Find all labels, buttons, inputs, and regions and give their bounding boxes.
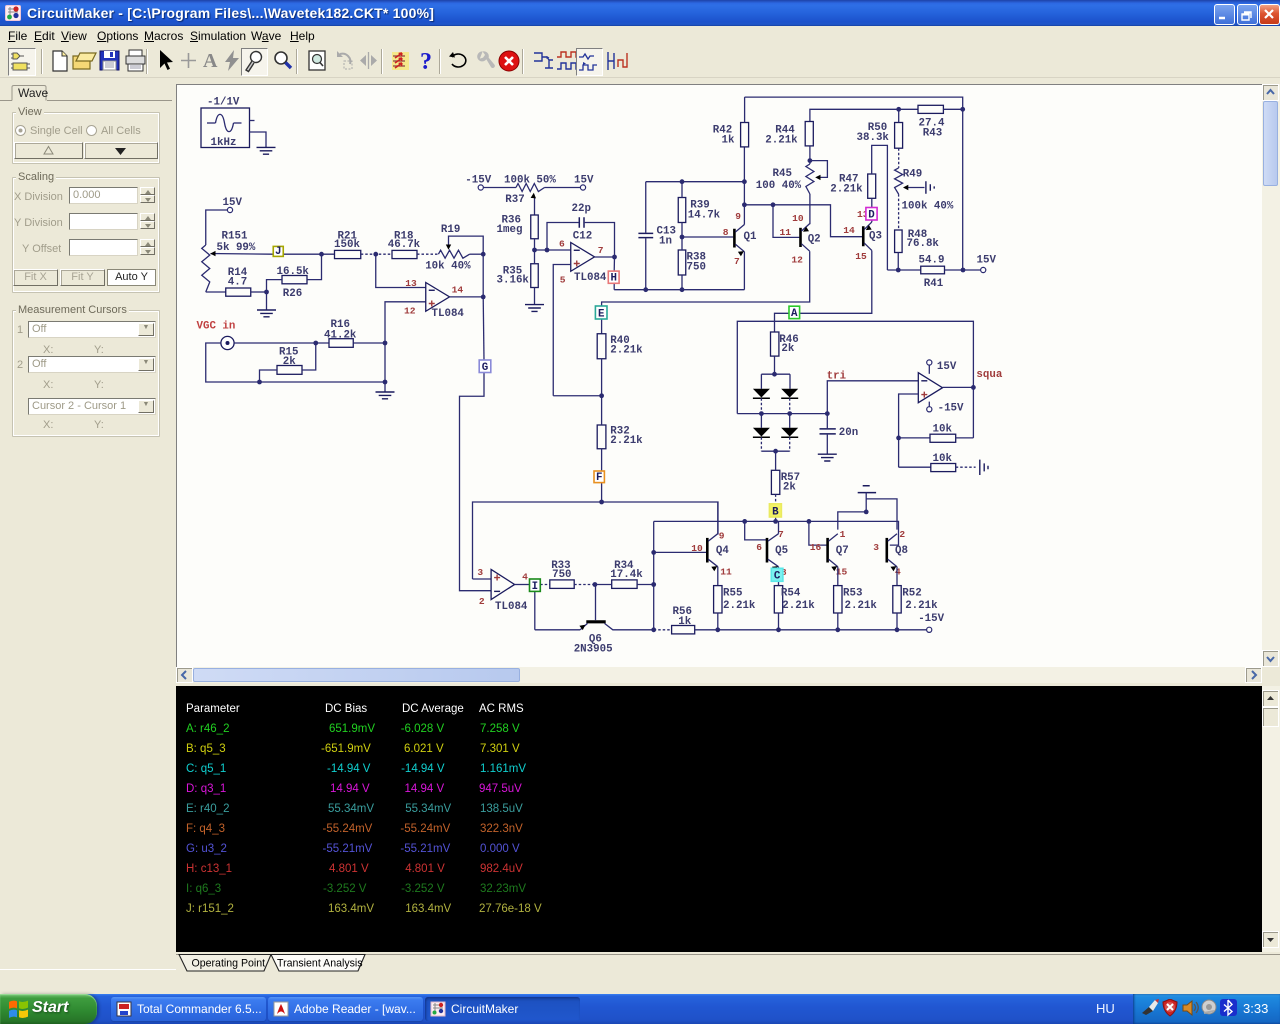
svg-text:2N3905: 2N3905 (574, 644, 613, 656)
wire R16 right (353, 342, 385, 344)
svg-text:Operating Point: Operating Point (192, 958, 266, 970)
wire U3C output (515, 584, 530, 586)
wire Q1 emitter down (743, 252, 745, 290)
wire R52 bottom (896, 613, 898, 630)
arrow (152, 48, 178, 74)
svg-text:4: 4 (895, 566, 901, 577)
junction dot Q4 base branch (651, 550, 656, 555)
zoom (270, 48, 296, 74)
resistor 10k ground (931, 453, 956, 472)
panel bottom edge (0, 967, 176, 970)
resistor R44 2.21k (765, 122, 813, 147)
svg-text:3: 3 (873, 542, 879, 553)
wire V1 minus to ground (250, 132, 267, 147)
wire -15V to R37 (483, 187, 516, 189)
junction dot R36-R35 (532, 248, 537, 253)
wave btn 2 (554, 48, 580, 74)
svg-text:11: 11 (720, 566, 732, 577)
junction dot R52 rail (895, 627, 900, 632)
wire U3B output (595, 256, 615, 258)
svg-text:R151: R151 (222, 230, 248, 242)
svg-text:76.8k: 76.8k (907, 238, 940, 250)
wire D2 to mid rail (789, 398, 791, 413)
svg-text:1k: 1k (722, 134, 735, 146)
wave btn 4 (604, 48, 630, 74)
svg-text:VGC in: VGC in (197, 320, 236, 332)
svg-text:7: 7 (598, 245, 604, 256)
connector VGC (221, 336, 234, 349)
svg-text:6: 6 (559, 238, 565, 249)
resistor R15 2k (277, 347, 302, 375)
bluetooth (1220, 999, 1237, 1016)
junction dot R15 right riser (313, 341, 318, 346)
wire D4 bottom (789, 437, 791, 451)
terminal 15V R37 (574, 175, 594, 190)
svg-text:?: ? (420, 49, 432, 74)
transistor Q6 2N3905 (535, 585, 654, 656)
wire right rail down (962, 109, 964, 270)
transistor Q4 (691, 530, 732, 577)
terminal 15V right (977, 254, 997, 272)
wire inverting input U3A (376, 254, 426, 287)
svg-text:A: A (791, 308, 798, 320)
node C (771, 568, 783, 582)
wire R40 bottom (601, 359, 603, 396)
wire node G to U3C (460, 297, 492, 591)
svg-text:2.21k: 2.21k (723, 600, 756, 612)
wire bottom rail (695, 629, 927, 631)
wire R14 to junction (251, 291, 267, 293)
resistor R18 46.7k (388, 231, 421, 259)
junction dot Q6 base (593, 582, 598, 587)
svg-text:Q1: Q1 (744, 231, 757, 243)
wire non-inverting input U3A (385, 302, 426, 343)
svg-text:10k: 10k (933, 453, 953, 465)
wire Q4 emitter (717, 567, 719, 586)
svg-text:10k 40%: 10k 40% (425, 261, 471, 273)
svg-text:Q3: Q3 (869, 230, 882, 242)
svg-text:2k: 2k (283, 356, 296, 368)
svg-text:2.21k: 2.21k (765, 134, 798, 146)
resistor R40 2.21k (597, 334, 643, 359)
svg-text:Q7: Q7 (836, 545, 849, 557)
junction dot Q7-Q8 collectors (864, 510, 869, 515)
wire Q8 emitter (896, 567, 898, 586)
op-amp U3C TL084 (477, 567, 528, 613)
node G (479, 360, 491, 374)
svg-text:1k: 1k (678, 616, 691, 628)
transistor Q1 (734, 211, 757, 267)
wire R53 bottom (837, 613, 839, 630)
wire R26 right to J wire (307, 254, 322, 279)
Wave tab (0, 84, 173, 102)
diode D1 (753, 374, 770, 398)
wire R47 top loop (872, 145, 888, 270)
svg-text:2.21k: 2.21k (610, 435, 643, 447)
svg-text:R55: R55 (723, 588, 742, 600)
wire U3A output (450, 296, 484, 298)
potentiometer R45 100 40% (756, 161, 828, 194)
svg-text:1meg: 1meg (497, 224, 523, 236)
wire Q7 collector (838, 512, 866, 530)
wire Q1-Q2 collector link (744, 205, 862, 237)
svg-text:F: F (596, 472, 602, 484)
node B (769, 504, 781, 519)
resistor R42 1k (713, 123, 749, 147)
ground below 20n (818, 454, 837, 461)
wire F rail (473, 502, 719, 579)
wire R43 right (943, 108, 962, 110)
op-amp U3A TL084 (404, 278, 464, 320)
svg-text:100 40%: 100 40% (756, 180, 802, 192)
junction dot bottom-left (257, 380, 262, 385)
wire to U3B minus (535, 249, 571, 251)
potentiometer R19 10k 40% (425, 224, 471, 272)
svg-text:9: 9 (719, 530, 725, 541)
node I (530, 579, 541, 593)
wire VGC bottom rail (206, 343, 385, 382)
junction dot Q1 base node (680, 235, 685, 240)
junction dot mid-tri (825, 411, 830, 416)
wave btn 1 (531, 48, 557, 74)
wave btn 3 (sunken) (576, 48, 603, 76)
pin label 8 Q1 base (723, 227, 729, 238)
svg-text:R37: R37 (505, 194, 524, 206)
capacitor C13 1n (638, 182, 676, 290)
junction dot C12 branch (545, 248, 550, 253)
svg-text:-15V: -15V (938, 403, 964, 415)
potentiometer R37 100k 50% (504, 175, 556, 215)
svg-text:Q2: Q2 (808, 233, 821, 245)
svg-text:16.5k: 16.5k (277, 266, 310, 278)
wire diode top rail (761, 373, 790, 375)
pin stub V1 plus (250, 120, 255, 122)
svg-text:TL084: TL084 (574, 272, 607, 284)
wire Q4 collector (717, 502, 719, 534)
resistor R38 750 (678, 250, 706, 275)
svg-text:I: I (532, 581, 538, 593)
junction dot diodes top (772, 372, 777, 377)
svg-text:14.7k: 14.7k (688, 209, 721, 221)
svg-text:5: 5 (560, 275, 566, 286)
svg-text:38.3k: 38.3k (857, 132, 890, 144)
resistor R21 150k (334, 231, 361, 259)
wire R48 bottom (897, 253, 899, 271)
wire R19 right (470, 253, 484, 255)
resistor R41 54.9 (919, 254, 945, 290)
wire Q4 base (654, 551, 707, 553)
wire C13 top line (646, 181, 745, 183)
wire node E riser (601, 319, 603, 334)
junction dot R21 left (319, 252, 324, 257)
op-amp U5 comparator (918, 373, 942, 403)
wire second rail (810, 109, 918, 121)
wire R41 right (945, 269, 981, 271)
ground below R35 (525, 305, 544, 312)
svg-text:100k 50%: 100k 50% (504, 175, 556, 187)
svg-text:3.16k: 3.16k (497, 274, 530, 286)
help (414, 48, 440, 74)
svg-text:-1/1V: -1/1V (207, 97, 240, 109)
resistor R33 750 (550, 560, 574, 589)
ground below R14 (257, 292, 276, 317)
View group (12, 112, 160, 164)
diode D2 (781, 374, 798, 398)
wire squa down to 10k (972, 387, 974, 438)
terminal -15V R37 (465, 175, 491, 190)
wire 10k-2 left (899, 466, 931, 468)
net label squa (976, 369, 1002, 381)
wire R15 right (302, 343, 316, 370)
junction dot R19 right (481, 252, 486, 257)
wire diode bottom join (761, 450, 789, 452)
wire node B to rail (775, 517, 777, 521)
svg-text:5k 99%: 5k 99% (217, 242, 256, 254)
ground R49 wiper (926, 181, 934, 194)
ground at source (257, 147, 276, 154)
wire R42 top (744, 97, 746, 122)
plus (176, 48, 202, 74)
wire R39 stems (681, 182, 683, 237)
wire R36 bottom (534, 239, 536, 250)
ground right of 10k (980, 460, 988, 475)
resistor R35 3.16k (497, 264, 539, 288)
wire 10k-2 right (956, 466, 976, 468)
mirror (disabled) (356, 48, 382, 74)
resistor R36 1meg (497, 215, 539, 239)
junction dot bottom rail left (651, 627, 656, 632)
wire Q1 base (682, 236, 733, 238)
junction dot Q7 branch (807, 519, 812, 524)
svg-text:R26: R26 (283, 288, 302, 300)
wire Q7 emitter (837, 567, 839, 586)
wire R19 wiper loop (449, 236, 484, 254)
svg-text:20n: 20n (839, 427, 858, 439)
save (97, 48, 123, 74)
wire R35 bottom to ground (534, 288, 536, 305)
wire D3 bottom (760, 437, 762, 451)
rotate (disabled) (332, 48, 358, 74)
wire R15 left (260, 370, 278, 382)
Scaling group (12, 177, 160, 293)
wire R55 bottom (717, 613, 719, 630)
junction dot R50 top (896, 107, 901, 112)
capacitor C12 22p (547, 203, 615, 257)
wire J to R21 junction (283, 253, 334, 255)
svg-text:13: 13 (405, 278, 417, 289)
wire U5 plus input (899, 394, 919, 467)
svg-text:8: 8 (723, 227, 729, 238)
junction dot Q2 branch (742, 202, 747, 207)
wire squa to diode rail (737, 321, 973, 413)
junction dot 15V rail (961, 268, 966, 273)
svg-text:9: 9 (735, 211, 741, 222)
diode D3 (753, 414, 770, 438)
wire F rail to op3 plus (473, 578, 492, 580)
svg-text:2k: 2k (783, 481, 796, 493)
wire R151 bottom to R14 (206, 291, 226, 293)
net label tri (827, 370, 847, 382)
junction dot R57 top (773, 449, 778, 454)
transistor Q5 (756, 529, 788, 578)
ground inverted above Q7 (858, 486, 876, 512)
stop (496, 48, 522, 74)
capacitor 20n (820, 414, 859, 454)
wire R21-R18 (361, 253, 392, 255)
svg-text:54.9: 54.9 (919, 254, 945, 266)
svg-text:R52: R52 (902, 588, 921, 600)
svg-text:1kHz: 1kHz (211, 137, 237, 149)
svg-text:2.21k: 2.21k (845, 600, 878, 612)
svg-text:R41: R41 (924, 278, 944, 290)
wire Q5 collector (778, 521, 780, 533)
ground below R16 node (376, 343, 395, 399)
svg-text:11: 11 (780, 227, 792, 238)
wire B rail (654, 521, 899, 545)
junction dot R54 rail (776, 627, 781, 632)
junction dot 10k-1 left (896, 436, 901, 441)
speaker (1183, 1001, 1198, 1015)
junction dot C13 bottom (643, 287, 648, 292)
svg-text:15V: 15V (223, 197, 243, 209)
wire Q2 collector down (602, 251, 810, 305)
svg-text:12: 12 (404, 305, 416, 316)
task buttons (111, 997, 266, 1021)
svg-text:2: 2 (899, 529, 905, 540)
wire R34 right (637, 584, 654, 586)
node J (273, 246, 283, 258)
svg-text:6: 6 (756, 542, 762, 553)
junction dot bottom-gnd (383, 380, 388, 385)
wire Q5 emitter (778, 567, 780, 586)
svg-text:R53: R53 (843, 588, 862, 600)
junction dot Q2 base riser (771, 202, 776, 207)
svg-text:D: D (868, 209, 875, 221)
wire R35 top (534, 250, 536, 264)
svg-text:E: E (598, 308, 605, 320)
new (47, 48, 73, 74)
undo (446, 48, 472, 74)
zoom doc (305, 48, 331, 74)
svg-text:10k: 10k (933, 424, 953, 436)
wire 10k-1 right (956, 437, 974, 439)
resistor R50 38.3k (857, 122, 903, 148)
junction dot R43 right (960, 107, 965, 112)
print (123, 48, 149, 74)
wire R37 to 15V (545, 187, 581, 189)
potentiometer R151 5k 99% (202, 230, 256, 292)
transistor Q2 (780, 213, 821, 265)
scrollbars (1262, 84, 1280, 667)
junction dot R38 bottom (680, 287, 685, 292)
junction dot R45 top (808, 158, 813, 163)
svg-text:Q5: Q5 (775, 545, 788, 557)
wire R49 bottom (898, 194, 900, 230)
transistor Q7 (810, 529, 849, 577)
wire U3B plus input (553, 265, 571, 396)
shield (1163, 999, 1177, 1016)
resistor 10k feedback (930, 424, 956, 443)
node H (608, 271, 619, 285)
junction dot mid-right (787, 411, 792, 416)
svg-text:squa: squa (976, 369, 1002, 381)
svg-text:TL084: TL084 (495, 601, 528, 613)
Measurement Cursors group (12, 310, 160, 437)
terminal -15V comparator (927, 402, 964, 415)
svg-text:10: 10 (691, 543, 703, 554)
wire R26 left (267, 280, 283, 292)
wire R34 left (595, 584, 612, 586)
junction dot B node (773, 519, 778, 524)
svg-text:B: B (772, 506, 779, 518)
svg-text:15V: 15V (937, 361, 957, 373)
svg-text:R45: R45 (773, 168, 792, 180)
node F (594, 471, 604, 484)
svg-text:2.21k: 2.21k (905, 600, 938, 612)
wire R19 to op-amp output node (482, 254, 484, 297)
junction dot R34 right (651, 582, 656, 587)
svg-text:22p: 22p (572, 203, 591, 215)
wire I to R33 (540, 584, 550, 586)
signal source V1 -1/1V 1kHz (201, 97, 250, 150)
op-amp U3B TL084 (559, 238, 607, 285)
svg-text:C: C (774, 571, 781, 583)
svg-text:R54: R54 (781, 588, 801, 600)
svg-text:Q4: Q4 (716, 545, 729, 557)
node D (866, 208, 877, 222)
terminal 15V top-left (223, 197, 243, 213)
wire Q3 emitter up through node D (871, 198, 873, 222)
probe (sunken) (241, 48, 268, 76)
wire node F to rail (601, 483, 603, 502)
wire Q1 collector up (743, 147, 745, 225)
wire R57 stems (775, 451, 777, 503)
svg-text:10: 10 (792, 213, 804, 224)
node E (595, 306, 607, 320)
wire H rail (614, 289, 744, 291)
wire R32 top (601, 396, 603, 425)
junction dot U3A output (481, 295, 486, 300)
junction dot R14-R26-gnd (264, 290, 269, 295)
resistor R52 2.21k (893, 586, 938, 613)
wire top rail (745, 97, 963, 109)
junction dot R48 bottom (896, 268, 901, 273)
wire bottom rail left (654, 629, 672, 631)
junction dot F rail (599, 500, 604, 505)
resistor R32 2.21k (597, 425, 643, 449)
wire D1 to mid rail (760, 398, 762, 413)
junction dot R18 left (373, 252, 378, 257)
wrench (disabled) (472, 48, 498, 74)
svg-text:15V: 15V (977, 254, 997, 266)
wire R54 bottom (778, 613, 780, 630)
junction dot R40-R32 (599, 393, 604, 398)
wire Q3 collector down to node A (800, 250, 872, 313)
svg-text:R49: R49 (903, 168, 922, 180)
wire VGC to R16 (234, 342, 329, 344)
svg-text:-15V: -15V (465, 175, 491, 187)
svg-text:R19: R19 (441, 224, 460, 236)
diode D4 (781, 414, 798, 438)
wire output down through node H (613, 257, 615, 290)
junction dot U3B output (612, 255, 617, 260)
svg-text:2.21k: 2.21k (610, 345, 643, 357)
resistor R34 17.4k (610, 560, 643, 589)
start button (0, 994, 97, 1024)
svg-text:A: A (203, 50, 218, 72)
svg-text:3: 3 (477, 567, 483, 578)
svg-text:4: 4 (522, 571, 528, 582)
